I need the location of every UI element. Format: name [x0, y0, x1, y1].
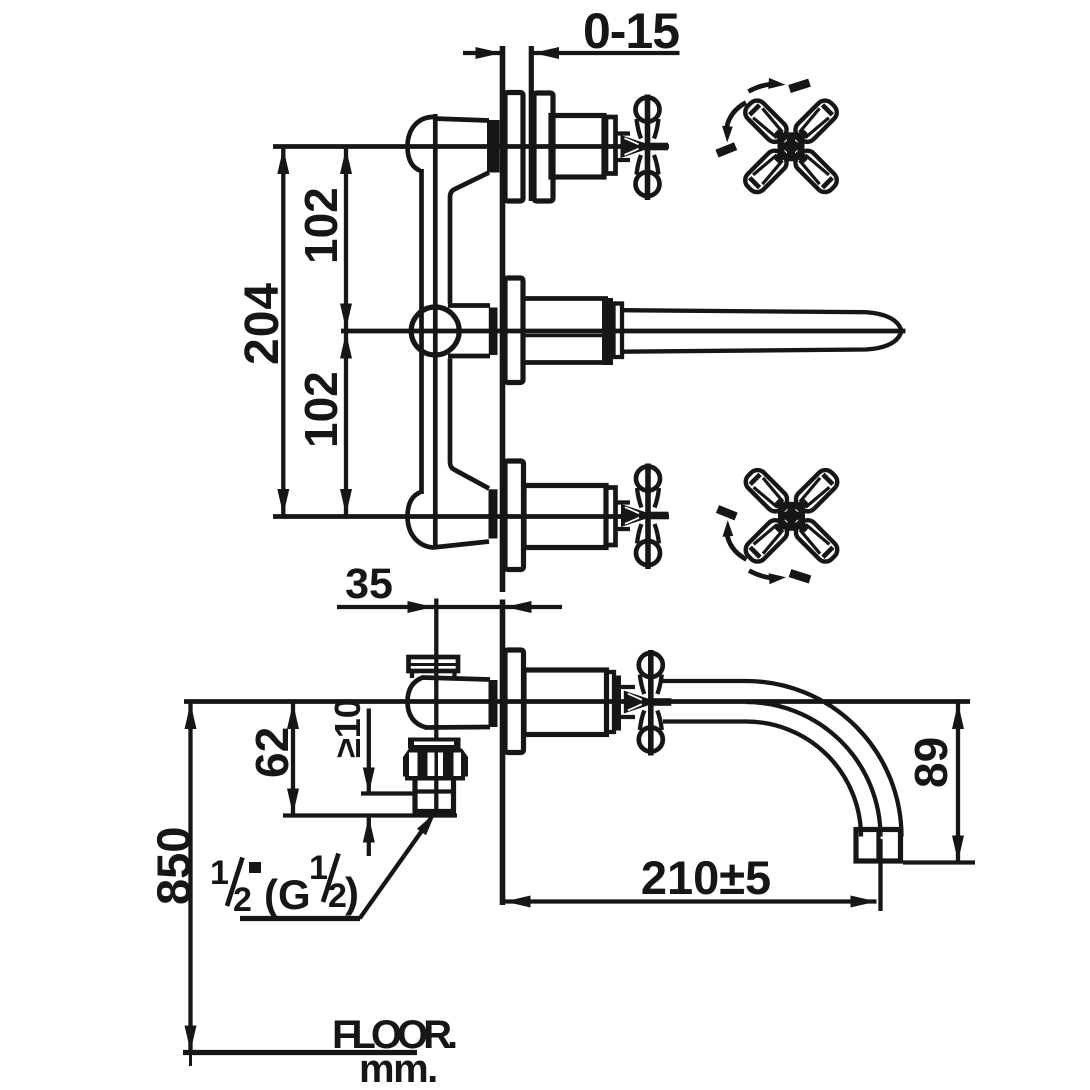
svg-text:204: 204 [236, 282, 289, 365]
handle cross symbol top: rotate arrow left arc [726, 103, 746, 131]
dark in-wall block top valve [487, 120, 500, 173]
handle cross symbol bottom: rotate arrow lower dash [789, 569, 812, 583]
handle cross symbol bottom: petals [742, 466, 841, 565]
spout bottom straight line [663, 719, 747, 723]
arrowhead 35 right [506, 601, 532, 613]
svg-text:mm.: mm. [359, 1047, 437, 1090]
arrowhead 89 bottom [952, 836, 964, 862]
dark in-wall block bottom valve [489, 489, 498, 538]
arrowhead 102 mid-up [340, 333, 352, 359]
spout top straight line [661, 679, 747, 683]
svg-text:89: 89 [905, 737, 957, 788]
bottom valve step [606, 488, 616, 546]
wire: middle spout axis / extension line [341, 329, 906, 334]
middle spout tube inner line [525, 334, 604, 338]
arrowhead 35 left [408, 601, 434, 613]
middle outlet stub bottom edge [448, 354, 490, 359]
supply elbow top collar inner line [409, 663, 459, 666]
bottom valve stem lines [617, 503, 631, 530]
wall line alt position (0-15 range) [529, 46, 534, 201]
handle cross symbol bottom: rotate arrow left dash [716, 505, 738, 520]
middle spout flange [505, 278, 523, 383]
dimension 0-15 line right segment [533, 51, 680, 55]
arrowhead 850 bottom [185, 1026, 197, 1052]
dimension 0-15 line left segment [463, 51, 501, 55]
thread label underline [240, 916, 360, 921]
dimension 850 line [188, 703, 192, 1052]
arrowhead 850 top [185, 703, 197, 729]
thread label leader arrowhead [417, 813, 436, 836]
side view valve flange [505, 650, 524, 753]
dimension 204 line [281, 147, 285, 516]
inlet pipe step line [415, 789, 454, 793]
spout centerline curve [746, 702, 881, 837]
union collar bands [408, 738, 461, 749]
middle spout tube bottom edge [523, 360, 608, 365]
spout outlet piece [856, 830, 901, 862]
bottom valve handle (side view) [621, 464, 669, 570]
supply elbow body bottom edge [425, 725, 490, 730]
svg-text:62: 62 [246, 727, 298, 778]
supply elbow top collar [409, 657, 459, 671]
floor line [183, 1050, 417, 1055]
handle cross symbol top: rotate arrow left head [722, 126, 733, 143]
faucet body slant below top valve [450, 173, 489, 304]
center inlet circle [411, 307, 459, 355]
middle spout tube top edge [523, 296, 608, 301]
svg-text:1: 1 [210, 854, 229, 892]
inlet pipe left edge [412, 780, 417, 812]
extension line ge10 [361, 791, 417, 795]
faucet body top edge [433, 119, 489, 121]
wire: top valve axis / extension line 102 [273, 144, 669, 149]
svg-text:210±5: 210±5 [641, 851, 771, 904]
spout outer curve [746, 681, 902, 837]
dimension 62 line [291, 703, 295, 815]
svg-text:0-15: 0-15 [583, 3, 679, 59]
top valve escutcheon flange 2 [534, 93, 553, 201]
middle spout step [614, 304, 623, 358]
thread label leader line [360, 818, 431, 919]
dimension 89 line [956, 703, 960, 862]
bottom valve escutcheon flange [505, 461, 524, 570]
supply elbow dark in-wall block [489, 680, 498, 727]
bottom valve body [524, 486, 606, 548]
svg-text:102: 102 [295, 187, 347, 264]
lever rod outline [622, 310, 902, 352]
supply elbow body top edge [423, 678, 490, 680]
top valve step [606, 117, 616, 174]
handle cross symbol top: rotate arrow upper dash [788, 79, 811, 93]
handle cross symbol bottom: rotate arrow left arc [727, 533, 747, 560]
side view valve bonnet dark [614, 676, 622, 731]
middle outlet stub top edge [448, 303, 490, 308]
spout outlet inner line [876, 830, 880, 862]
arrowhead 102 top-up [340, 148, 352, 174]
wall line (side view) [500, 600, 506, 906]
arrowhead 62 bottom [287, 789, 299, 815]
extension line 89 bottom [903, 860, 975, 864]
top valve escutcheon flange 1 [505, 93, 523, 202]
svg-text:35: 35 [345, 560, 393, 608]
arrowhead 62 top [287, 703, 299, 729]
arrowhead 102 mid-down [340, 304, 352, 330]
supply elbow body left arc [408, 677, 427, 728]
handle cross symbol bottom: rotate arrow lower head [769, 573, 786, 584]
top valve handle (side view) [621, 95, 669, 201]
svg-text:): ) [345, 869, 359, 916]
middle spout end dark band [602, 298, 613, 365]
handle cross symbol top: rotate arrow upper head [768, 78, 785, 89]
handle cross symbol top: rotate arrow left dash [715, 142, 737, 157]
arrowhead 0-15 right [533, 47, 559, 59]
side view handle [624, 650, 672, 756]
union nut [403, 749, 468, 777]
wall line (finished wall surface) [500, 46, 506, 592]
arrowhead 204 top [277, 148, 289, 174]
faucet body front face line [433, 114, 438, 549]
inlet pipe right edge [451, 780, 456, 812]
union nut bottom rim [405, 776, 465, 781]
svg-text:1: 1 [309, 849, 328, 887]
arrowhead 102 bottom-down [340, 489, 352, 515]
handle cross symbol bottom: rotate arrow lower arc [749, 571, 779, 579]
faucet body top cap arc [408, 117, 434, 171]
spout inner curve [746, 722, 861, 837]
dimension 35 line [337, 605, 562, 609]
dimension ge10 upper line [367, 709, 371, 794]
arrowhead 0-15 left [476, 47, 502, 59]
wire: bottom valve axis / extension line 102 [273, 514, 669, 519]
arrowhead 204 bottom [277, 489, 289, 515]
top valve body [551, 116, 604, 178]
arrowhead 89 top [952, 703, 964, 729]
supply elbow collar-to-body sides [412, 671, 455, 678]
dark in-wall block middle [489, 308, 498, 356]
supply elbow axis / extension line [434, 599, 438, 811]
handle cross symbol top: petals [742, 97, 841, 196]
faucet body slant above bottom valve [450, 359, 489, 489]
wire: faucet axis reference line [184, 699, 970, 704]
top valve stem lines [616, 134, 630, 161]
handle cross symbol top: rotate arrow upper arc [749, 84, 779, 92]
dimension 102 line [344, 147, 348, 516]
arrowhead ge10 up [363, 817, 375, 843]
handle cross symbol bottom: rotate arrow left head [723, 520, 734, 537]
dimension 210 line [505, 899, 877, 903]
arrowhead 210 left [505, 896, 531, 908]
svg-text:(G: (G [264, 871, 311, 918]
ge10 lower tail [367, 817, 371, 857]
svg-text:≥10: ≥10 [327, 698, 368, 758]
extension line 210 right [878, 839, 882, 911]
faucet body bottom cap arc [408, 493, 490, 548]
side view valve step [607, 672, 615, 732]
side view valve stem lines [621, 687, 635, 717]
faucet body left edge [419, 169, 424, 494]
svg-text:2: 2 [233, 881, 252, 919]
svg-text:850: 850 [147, 827, 200, 905]
extension line 62 bottom [283, 813, 457, 817]
side view valve body [524, 670, 607, 735]
850 bottom spike [189, 1052, 192, 1067]
inlet pipe bottom edge [413, 809, 457, 814]
arrowhead ge10 down [363, 768, 375, 794]
svg-text:102: 102 [295, 371, 347, 448]
arrowhead 210 right [851, 896, 877, 908]
